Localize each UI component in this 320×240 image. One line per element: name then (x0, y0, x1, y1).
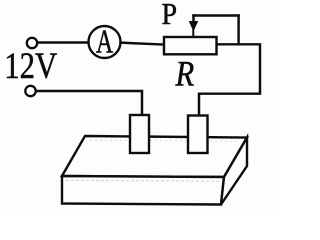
svg-text:A: A (96, 24, 113, 61)
svg-text:12V: 12V (4, 45, 57, 87)
svg-text:R: R (175, 54, 195, 94)
svg-text:P: P (162, 0, 178, 32)
